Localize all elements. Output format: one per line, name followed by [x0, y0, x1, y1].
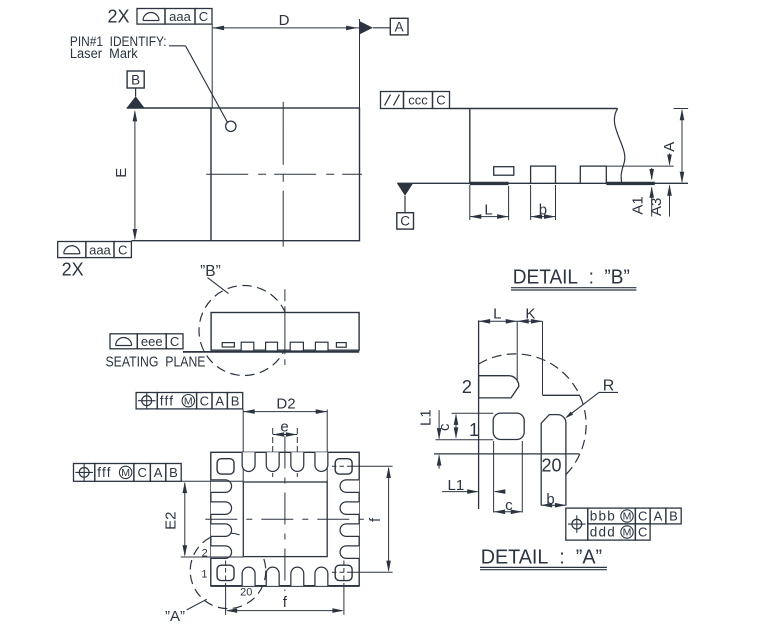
svg-text:SEATING PLANE: SEATING PLANE	[106, 354, 206, 371]
svg-text:ccc: ccc	[408, 93, 428, 108]
svg-text:B: B	[231, 393, 240, 408]
svg-text:DETAIL : ”A”: DETAIL : ”A”	[481, 547, 602, 569]
svg-text:M: M	[623, 511, 632, 523]
svg-text:b: b	[546, 491, 554, 508]
svg-text:L1: L1	[448, 477, 465, 494]
svg-text:A: A	[654, 509, 663, 524]
svg-text:C: C	[200, 393, 209, 408]
svg-text:e: e	[280, 418, 288, 435]
svg-text:c: c	[505, 497, 513, 514]
svg-text:2X: 2X	[62, 260, 84, 280]
svg-text:eee: eee	[141, 334, 163, 349]
svg-text:C: C	[137, 465, 146, 480]
svg-text:B: B	[131, 72, 140, 87]
svg-text:L: L	[484, 202, 492, 219]
svg-text:bbb: bbb	[590, 509, 616, 524]
svg-text:f: f	[283, 594, 288, 611]
svg-text:A: A	[154, 465, 163, 480]
svg-text:2: 2	[202, 548, 208, 560]
svg-text:A: A	[215, 393, 224, 408]
svg-text:E2: E2	[162, 512, 179, 530]
svg-text:aaa: aaa	[169, 9, 191, 24]
svg-text:B: B	[169, 465, 178, 480]
svg-text:C: C	[436, 93, 445, 108]
svg-text:b: b	[539, 202, 547, 219]
svg-text:aaa: aaa	[89, 242, 111, 257]
svg-text:B: B	[669, 509, 678, 524]
svg-text:”A”: ”A”	[165, 608, 185, 625]
svg-text:A: A	[661, 142, 678, 152]
svg-text:fff: fff	[160, 393, 174, 408]
svg-text:M: M	[121, 467, 130, 479]
svg-text:f: f	[367, 517, 384, 522]
svg-text:ddd: ddd	[590, 525, 616, 540]
svg-text:2: 2	[462, 377, 472, 397]
svg-text:A1: A1	[630, 196, 647, 214]
svg-text:C: C	[638, 509, 647, 524]
svg-text:M: M	[623, 527, 632, 539]
svg-text:DETAIL : ”B”: DETAIL : ”B”	[513, 266, 630, 288]
svg-text:20: 20	[541, 456, 561, 476]
svg-text:fff: fff	[97, 465, 111, 480]
svg-text:C: C	[118, 242, 127, 257]
svg-text:C: C	[170, 334, 179, 349]
svg-text:2X: 2X	[107, 7, 129, 27]
svg-text:1: 1	[469, 420, 479, 440]
svg-text:L1: L1	[418, 409, 435, 426]
svg-text:Laser Mark: Laser Mark	[70, 46, 138, 61]
svg-text:c: c	[436, 423, 453, 431]
svg-text:E: E	[113, 168, 130, 178]
svg-text:A: A	[395, 19, 404, 34]
svg-text:D: D	[279, 12, 290, 29]
svg-text:L: L	[493, 305, 501, 322]
svg-text:C: C	[199, 9, 208, 24]
svg-text:1: 1	[201, 569, 207, 581]
svg-text:M: M	[184, 395, 193, 407]
svg-text:C: C	[638, 525, 647, 540]
svg-text:C: C	[400, 214, 410, 229]
svg-text:D2: D2	[276, 395, 295, 412]
svg-text:”B”: ”B”	[200, 263, 221, 280]
svg-text:A3: A3	[648, 198, 665, 216]
svg-text:K: K	[525, 305, 535, 322]
svg-text:20: 20	[240, 587, 252, 599]
